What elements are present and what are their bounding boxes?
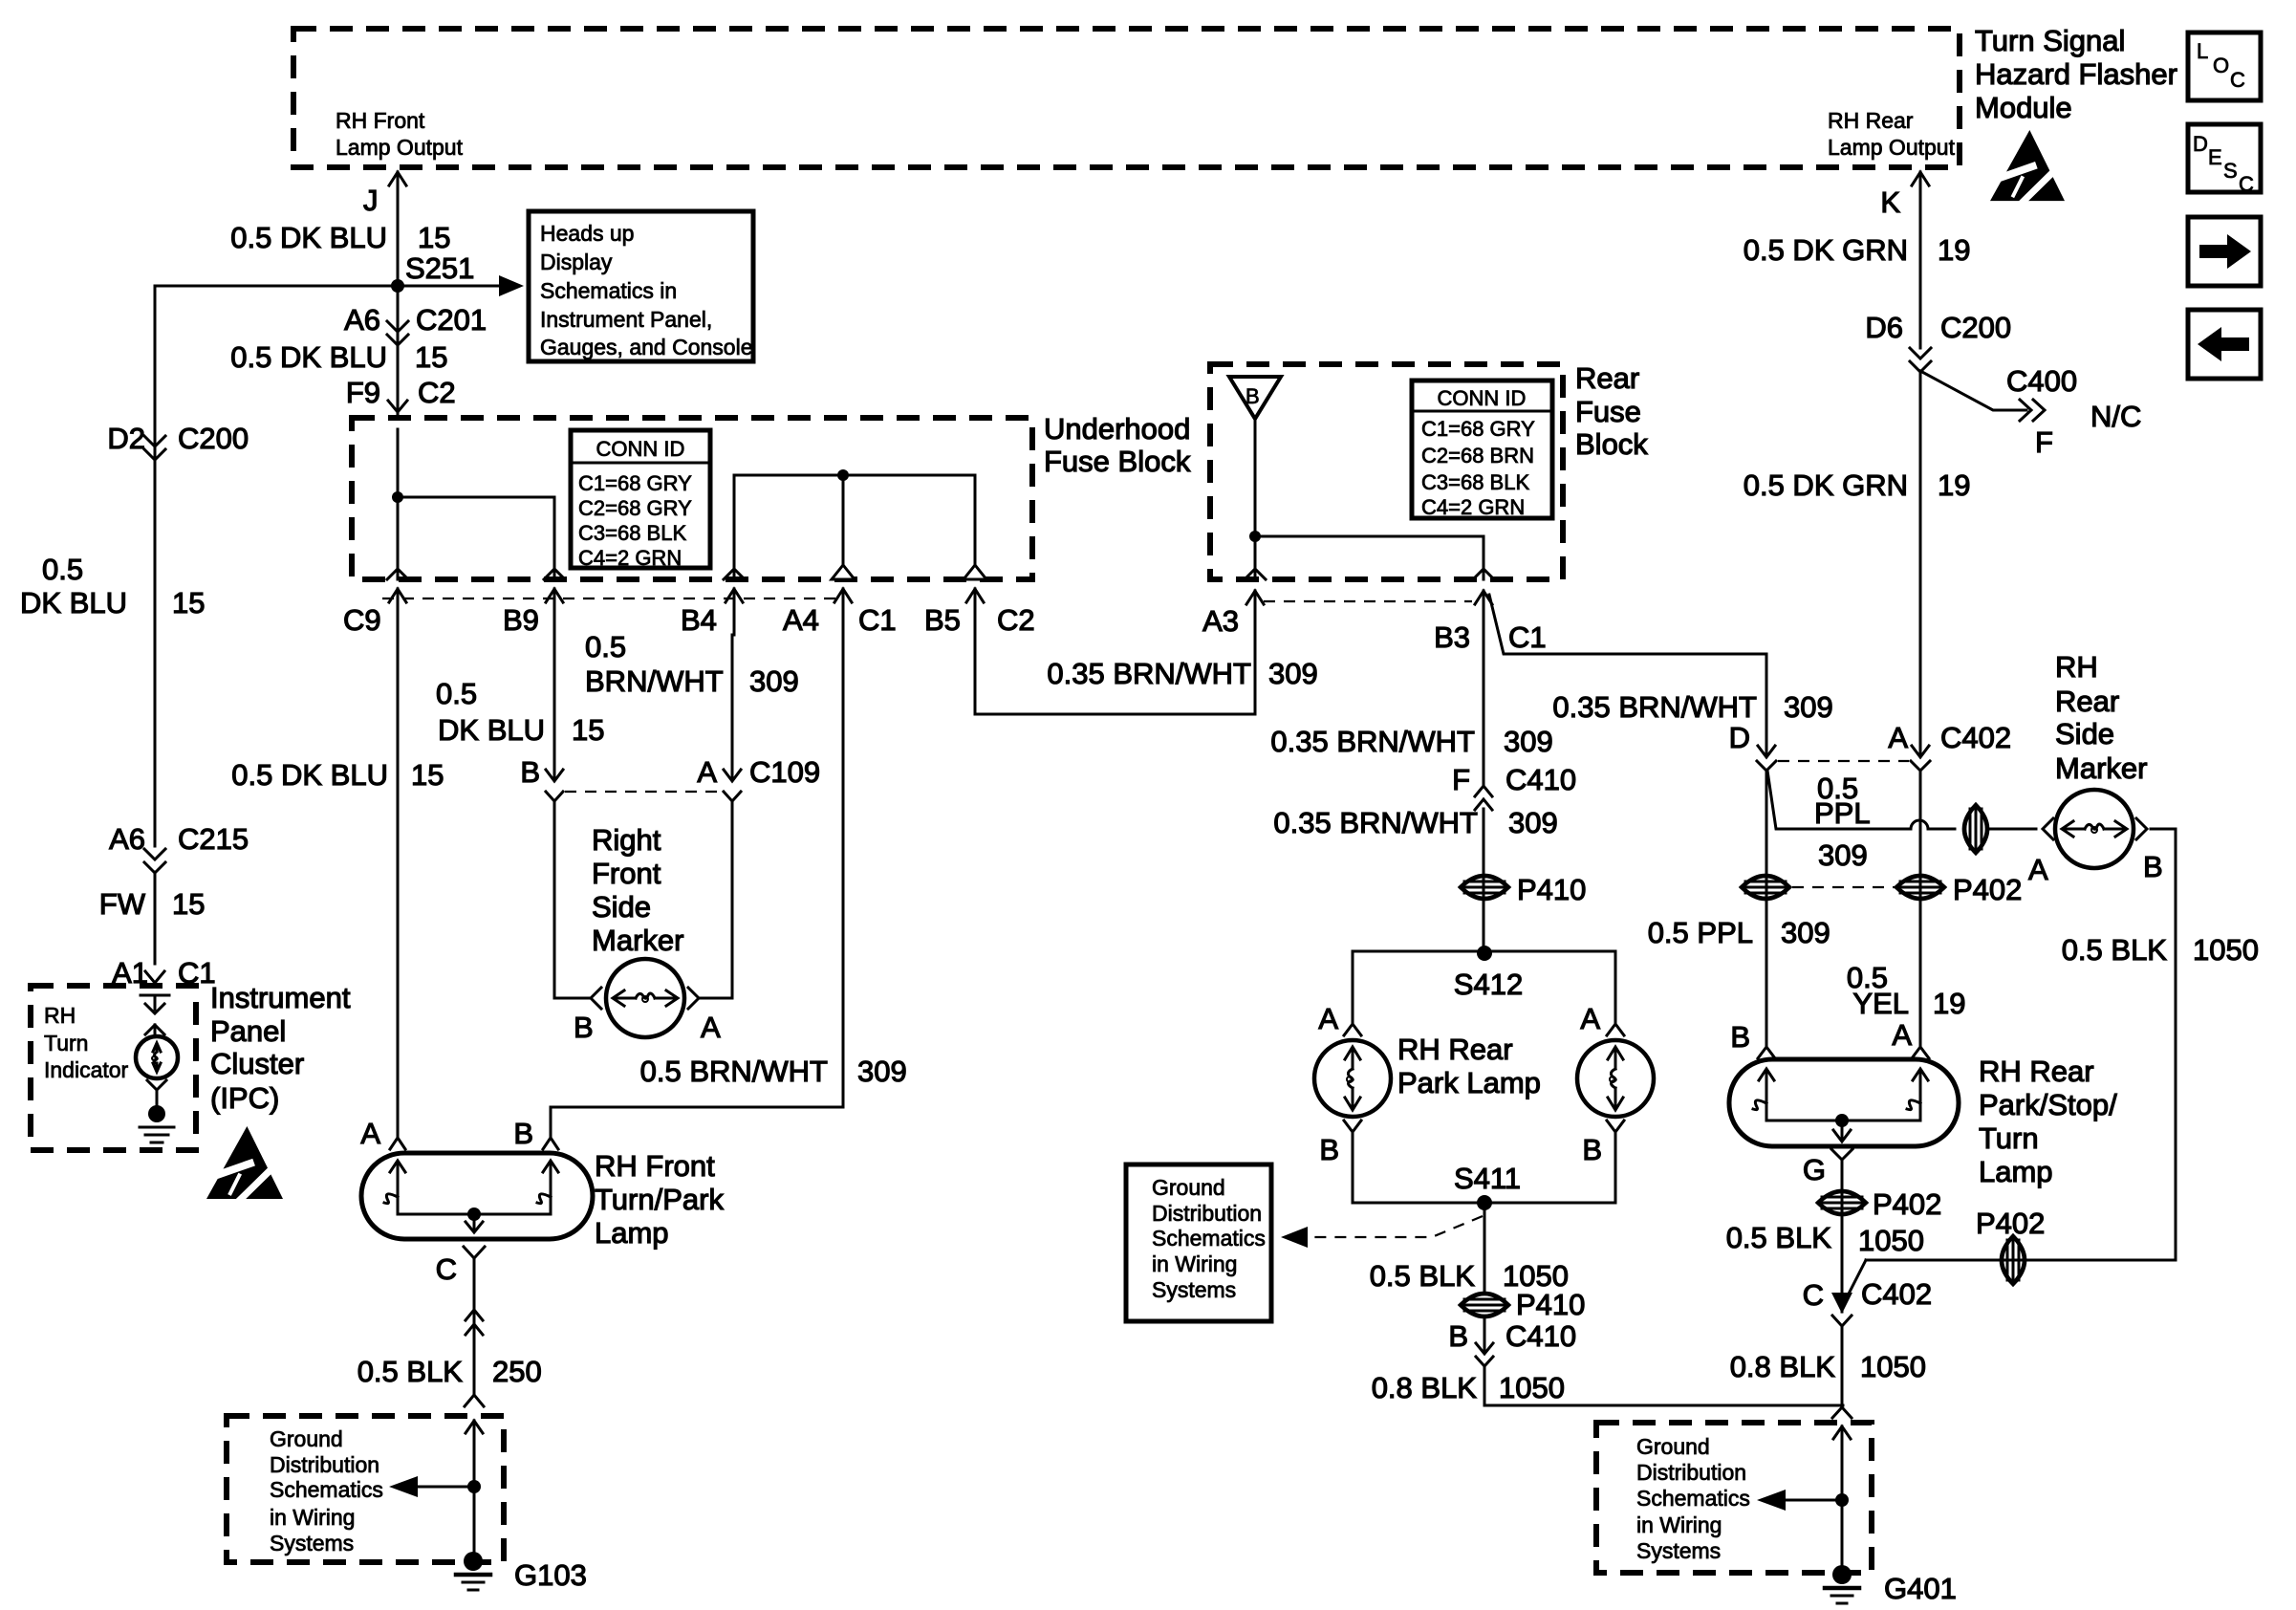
rear lamp pin A <box>1912 1047 1929 1058</box>
pin B3 / C1 <box>1473 569 1494 579</box>
svg-text:Distribution: Distribution <box>1636 1460 1746 1485</box>
connector C402 pin A <box>1912 746 1929 757</box>
svg-text:309: 309 <box>1818 838 1868 872</box>
RH rear park/stop/turn lamp <box>1729 1059 1959 1146</box>
connector C109 pin B <box>546 770 563 781</box>
svg-text:O: O <box>2213 54 2229 77</box>
legend box LOC <box>2188 33 2261 100</box>
fuse block internal splice <box>392 491 403 503</box>
legend box DESC <box>2188 124 2261 192</box>
front lamp pin C <box>464 1247 485 1258</box>
svg-text:Cluster: Cluster <box>210 1047 304 1080</box>
svg-text:YEL: YEL <box>1852 987 1909 1020</box>
svg-text:PPL: PPL <box>1814 796 1871 830</box>
svg-text:Block: Block <box>1575 427 1648 461</box>
svg-text:DK BLU: DK BLU <box>438 713 545 747</box>
rear fuse block internal wire <box>1254 419 1257 579</box>
rear lamp pin G <box>1831 1149 1852 1160</box>
rear fuse block feed triangle B <box>1229 377 1281 419</box>
junction of ground wires <box>1832 1407 1852 1418</box>
svg-text:L: L <box>2197 39 2208 63</box>
svg-text:C215: C215 <box>178 822 249 856</box>
connector C215 pin A6 <box>144 849 165 859</box>
svg-text:Side: Side <box>592 890 651 924</box>
fuse block internal bus B4-A4-C2 <box>734 474 975 477</box>
rh rear park lamp right bulb <box>1577 1040 1654 1117</box>
wire 0.5 BLK 1050 (G down) <box>1841 1161 1844 1298</box>
rh rear park lamp (left bulb) pin A <box>1344 1024 1361 1035</box>
grommet P402 (sideways on return) <box>2002 1236 2025 1284</box>
svg-text:Heads up: Heads up <box>540 221 634 246</box>
svg-text:BRN/WHT: BRN/WHT <box>585 664 724 698</box>
wire S251 down to C201 <box>397 286 400 418</box>
svg-text:C2: C2 <box>418 376 456 409</box>
svg-text:Front: Front <box>592 857 661 890</box>
connector C200 pin D2 <box>144 436 165 446</box>
pin B5 / C2 <box>964 565 986 579</box>
svg-text:Instrument Panel,: Instrument Panel, <box>540 307 712 332</box>
svg-text:S412: S412 <box>1454 968 1523 1001</box>
connector face dashed line (underhood) <box>382 598 841 599</box>
svg-text:250: 250 <box>492 1355 542 1388</box>
IPC pin socket <box>141 994 169 997</box>
wire FW 15 <box>154 872 157 964</box>
svg-text:A4: A4 <box>783 603 819 637</box>
wire S251 to heads-up reference (arrow) <box>398 285 499 288</box>
wire 0.8 BLK 1050 (to G401) <box>1484 1366 1486 1405</box>
svg-text:0.5: 0.5 <box>42 553 83 586</box>
connector C402 dashed face <box>1778 760 1909 762</box>
svg-text:G401: G401 <box>1884 1572 1957 1605</box>
svg-text:N/C: N/C <box>2090 400 2141 433</box>
svg-text:0.5 DK BLU: 0.5 DK BLU <box>230 340 387 374</box>
svg-text:0.5 BLK: 0.5 BLK <box>1726 1221 1832 1254</box>
svg-text:B3: B3 <box>1434 620 1470 654</box>
svg-text:D: D <box>1729 721 1750 754</box>
svg-text:C: C <box>2239 172 2254 196</box>
svg-text:Systems: Systems <box>270 1531 354 1556</box>
fuse block internal wire C9 <box>397 429 400 579</box>
svg-text:C1=68 GRY: C1=68 GRY <box>578 471 692 495</box>
svg-text:RH Front: RH Front <box>336 108 425 133</box>
svg-text:C410: C410 <box>1505 763 1576 796</box>
wire S251 left branch to D2 C200 <box>155 285 398 288</box>
svg-text:K: K <box>1880 185 1900 219</box>
svg-text:0.8 BLK: 0.8 BLK <box>1730 1350 1836 1383</box>
svg-text:309: 309 <box>749 664 799 698</box>
svg-text:C400: C400 <box>2006 364 2077 398</box>
svg-text:FW: FW <box>99 887 146 921</box>
svg-text:C1=68 GRY: C1=68 GRY <box>1421 417 1535 441</box>
svg-text:Fuse: Fuse <box>1575 395 1641 428</box>
svg-text:Marker: Marker <box>592 924 683 957</box>
legend box right-arrow <box>2188 217 2261 286</box>
svg-text:P402: P402 <box>1953 873 2022 906</box>
wire B9 side to side marker B <box>553 801 556 998</box>
svg-text:309: 309 <box>1504 725 1553 758</box>
svg-text:Turn/Park: Turn/Park <box>595 1183 724 1216</box>
right front side marker lamp <box>591 988 601 1009</box>
wire 0.5 BRN/WHT 309 (A4/C1 to front lamp B) <box>842 635 845 1107</box>
svg-text:P410: P410 <box>1517 873 1586 906</box>
RH turn indicator lamp <box>136 1036 178 1078</box>
connector C402 pin D <box>1758 746 1775 757</box>
wire 0.8 BLK 1050 (C402 to G401) <box>1841 1328 1844 1405</box>
wire into right ground box <box>1841 1426 1844 1500</box>
svg-text:in Wiring: in Wiring <box>1152 1251 1237 1276</box>
svg-text:F: F <box>2035 425 2053 459</box>
splice S411 <box>1353 1202 1615 1205</box>
pin A4 / C1 <box>832 565 855 579</box>
svg-text:15: 15 <box>418 221 450 254</box>
connector C410 pin F <box>1475 786 1492 796</box>
svg-text:Schematics: Schematics <box>270 1477 383 1502</box>
wire 0.35 BRN/WHT 309 (to P410) <box>1483 809 1485 949</box>
svg-text:RH Rear: RH Rear <box>1397 1033 1513 1066</box>
svg-text:D: D <box>2193 132 2208 156</box>
return joins C402 pin C <box>1844 1260 1866 1303</box>
rh rear park lamp left bulb <box>1314 1040 1391 1117</box>
grommet P402 (on yel wire) <box>1896 876 1944 899</box>
rh rear side marker lamp <box>2043 818 2053 839</box>
turn signal hazard flasher module U1 (dashed box) <box>293 29 1960 167</box>
connector C200 pin D6 <box>1910 348 1931 359</box>
svg-text:Side: Side <box>2055 717 2114 751</box>
wire 0.5 DK BLU 15 (C9 to front lamp A) <box>397 635 400 1138</box>
svg-text:RH Rear: RH Rear <box>1979 1055 2094 1088</box>
svg-text:15: 15 <box>172 586 205 620</box>
svg-text:C1: C1 <box>858 603 897 637</box>
svg-text:P402: P402 <box>1873 1187 1941 1221</box>
svg-text:C3=68 BLK: C3=68 BLK <box>578 521 686 545</box>
svg-text:B: B <box>520 755 540 789</box>
svg-text:Systems: Systems <box>1152 1277 1236 1302</box>
svg-text:Underhood: Underhood <box>1044 412 1190 446</box>
svg-text:Display: Display <box>540 250 613 274</box>
svg-text:B: B <box>1448 1319 1468 1353</box>
wire 0.5 DK BLU 15 to IPC <box>154 286 157 846</box>
fuse block internal wire to B9 <box>398 496 554 499</box>
wire 0.35 BRN/WHT 309 (B3 down) <box>1483 635 1485 784</box>
svg-text:P402: P402 <box>1976 1207 2045 1240</box>
svg-text:B: B <box>1582 1133 1602 1166</box>
connector C410 pin B <box>1484 1316 1486 1353</box>
svg-text:19: 19 <box>1938 468 1970 502</box>
svg-text:Hazard Flasher: Hazard Flasher <box>1975 57 2177 91</box>
svg-text:0.5 BLK: 0.5 BLK <box>1370 1259 1476 1293</box>
svg-text:C3=68 BLK: C3=68 BLK <box>1421 470 1529 494</box>
svg-text:Indicator: Indicator <box>44 1057 129 1082</box>
ground G401 <box>1832 1565 1852 1584</box>
svg-text:A3: A3 <box>1202 604 1239 638</box>
svg-text:A: A <box>1892 1018 1912 1052</box>
svg-text:0.35 BRN/WHT: 0.35 BRN/WHT <box>1047 657 1251 690</box>
svg-text:0.5: 0.5 <box>436 677 477 710</box>
ground distribution reference box (middle, solid) <box>1126 1164 1271 1321</box>
front lamp pin B <box>543 1138 558 1149</box>
svg-text:C410: C410 <box>1505 1319 1576 1353</box>
svg-text:Systems: Systems <box>1636 1538 1721 1563</box>
right bulb pin B <box>1607 1120 1624 1132</box>
svg-text:C201: C201 <box>416 303 487 337</box>
svg-text:P410: P410 <box>1516 1288 1585 1321</box>
svg-text:C: C <box>2230 68 2245 92</box>
pin B9 <box>544 569 565 579</box>
connector C109 pin A <box>724 770 741 781</box>
wire 0.5 PPL 309 (D down to lamp B) <box>1765 771 1768 1045</box>
wire 0.5 YEL 19 (A to rear lamp) <box>1919 771 1922 1045</box>
svg-text:1050: 1050 <box>1860 1350 1926 1383</box>
ground (IPC internal) <box>148 1105 165 1122</box>
svg-text:B4: B4 <box>681 603 717 637</box>
svg-text:RH: RH <box>44 1003 76 1028</box>
connector C402 pin C <box>1841 1298 1844 1312</box>
svg-text:309: 309 <box>857 1055 907 1088</box>
wire 0.35 BRN/WHT 309 (C1 to D) <box>1489 595 1766 654</box>
svg-text:15: 15 <box>415 340 447 374</box>
wire into ground box <box>473 1421 476 1487</box>
svg-text:Ground: Ground <box>270 1426 343 1451</box>
svg-text:C9: C9 <box>343 603 381 637</box>
wire 0.5 BRN/WHT 309 (B4 to C109) <box>731 635 734 780</box>
svg-text:Lamp Output: Lamp Output <box>1828 135 1956 160</box>
svg-text:Fuse Block: Fuse Block <box>1044 445 1191 478</box>
svg-text:B: B <box>1730 1020 1750 1054</box>
wire 0.5 DK GRN 19 (down to C402) <box>1919 371 1922 755</box>
connector face dashed (rear fuse block) <box>1264 600 1472 602</box>
svg-text:C1: C1 <box>1508 620 1547 654</box>
wire K output 0.5 DK GRN 19 <box>1919 172 1922 348</box>
left bulb pin B <box>1344 1120 1361 1132</box>
splice S251 <box>391 279 404 293</box>
svg-text:A: A <box>1580 1002 1600 1035</box>
svg-text:C4=2 GRN: C4=2 GRN <box>1421 495 1525 519</box>
svg-text:309: 309 <box>1781 916 1830 949</box>
svg-text:C109: C109 <box>749 755 820 789</box>
svg-text:F: F <box>1452 763 1470 796</box>
svg-text:D2: D2 <box>107 422 145 455</box>
svg-text:DK BLU: DK BLU <box>20 586 127 620</box>
svg-text:S411: S411 <box>1454 1162 1521 1195</box>
svg-text:G103: G103 <box>514 1558 587 1592</box>
IPC lamp lower pin <box>147 1080 166 1090</box>
wire 0.35 BRN/WHT 309 (C2 to rear fuse block A3) <box>974 635 977 714</box>
wire S412 bus <box>1353 950 1615 953</box>
wire side marker A to B4 <box>701 997 732 1000</box>
wire J output 0.5 DK BLU 15 (pin J) <box>397 172 400 286</box>
svg-text:Distribution: Distribution <box>1152 1201 1262 1226</box>
svg-text:Schematics: Schematics <box>1636 1486 1750 1511</box>
svg-text:Ground: Ground <box>1636 1434 1710 1459</box>
svg-text:Gauges, and Console: Gauges, and Console <box>540 335 753 359</box>
svg-text:15: 15 <box>411 758 444 792</box>
pin B4 <box>724 569 745 579</box>
svg-text:E: E <box>2208 145 2222 169</box>
svg-text:Park/Stop/: Park/Stop/ <box>1979 1088 2117 1121</box>
svg-text:F9: F9 <box>346 376 380 409</box>
CONN ID table (underhood) <box>571 430 710 568</box>
splice S412 <box>1477 946 1492 961</box>
svg-text:309: 309 <box>1784 690 1833 724</box>
CONN ID table (rear) <box>1412 381 1552 518</box>
svg-text:0.5 DK GRN: 0.5 DK GRN <box>1744 233 1908 267</box>
svg-text:A: A <box>1318 1002 1338 1035</box>
arrow to schematics text <box>418 1486 474 1489</box>
side marker return 0.5 BLK 1050 <box>2151 828 2176 831</box>
connector C109 dashed face <box>565 791 726 793</box>
pin C9 <box>387 569 408 579</box>
svg-text:C: C <box>1803 1278 1824 1312</box>
svg-text:C4=2 GRN: C4=2 GRN <box>578 546 682 570</box>
svg-text:Park Lamp: Park Lamp <box>1397 1066 1541 1099</box>
svg-text:Lamp: Lamp <box>1979 1155 2053 1188</box>
svg-text:Panel: Panel <box>210 1014 286 1048</box>
svg-text:C402: C402 <box>1940 721 2011 754</box>
ESD sensitivity symbol (IPC) <box>206 1126 283 1203</box>
svg-text:0.5 BRN/WHT: 0.5 BRN/WHT <box>640 1055 828 1088</box>
underhood fuse block (dashed box) <box>352 418 1032 579</box>
grommet P410 <box>1461 876 1508 899</box>
svg-text:D6: D6 <box>1865 311 1903 344</box>
svg-text:Rear: Rear <box>2055 685 2119 718</box>
svg-text:Turn: Turn <box>1979 1121 2039 1155</box>
connector C1 pin A1 (arrow into IPC) <box>145 971 164 983</box>
svg-text:309: 309 <box>1268 657 1318 690</box>
svg-text:A: A <box>697 755 717 789</box>
ground G103 <box>464 1552 483 1571</box>
svg-text:0.35 BRN/WHT: 0.35 BRN/WHT <box>1552 690 1757 724</box>
svg-text:CONN ID: CONN ID <box>1438 386 1527 410</box>
svg-text:B: B <box>2143 850 2163 883</box>
wire 0.5 BLK 1050 (S411 down) <box>1484 1203 1486 1294</box>
svg-text:19: 19 <box>1938 233 1970 267</box>
arrow to schematics text (right) <box>1786 1499 1842 1502</box>
connector C2 pin F9 (arrow into fuse block) <box>388 401 407 412</box>
svg-text:C2: C2 <box>997 603 1035 637</box>
ESD sensitivity symbol (module) <box>1990 130 2065 205</box>
reference box Heads up Display Schematics <box>529 211 753 361</box>
svg-text:in Wiring: in Wiring <box>1636 1512 1722 1537</box>
svg-text:1050: 1050 <box>2193 933 2259 967</box>
svg-text:G: G <box>1803 1153 1826 1186</box>
svg-text:Turn: Turn <box>44 1031 88 1055</box>
svg-text:Lamp: Lamp <box>595 1216 669 1250</box>
svg-text:C402: C402 <box>1861 1277 1932 1311</box>
svg-text:B9: B9 <box>503 603 539 637</box>
svg-text:1050: 1050 <box>1858 1224 1924 1257</box>
instrument panel cluster IPC (dashed box) <box>31 986 196 1150</box>
svg-text:15: 15 <box>572 713 604 747</box>
pin A3 <box>1245 569 1266 579</box>
wire 0.5 DK BLU 15 (B9 to C109) <box>553 635 556 780</box>
svg-text:Marker: Marker <box>2055 751 2147 785</box>
svg-text:in Wiring: in Wiring <box>270 1505 355 1530</box>
svg-text:B: B <box>1245 384 1260 408</box>
svg-text:(IPC): (IPC) <box>210 1081 279 1115</box>
svg-text:0.35 BRN/WHT: 0.35 BRN/WHT <box>1273 806 1478 839</box>
svg-text:0.5 BLK: 0.5 BLK <box>2062 933 2168 967</box>
rear lamp pin B <box>1758 1047 1775 1058</box>
rh rear park lamp (right bulb) pin A <box>1607 1024 1624 1035</box>
svg-text:A6: A6 <box>344 303 380 337</box>
svg-text:0.5 BLK: 0.5 BLK <box>357 1355 464 1388</box>
svg-text:RH Front: RH Front <box>595 1149 715 1183</box>
svg-text:0.5 DK GRN: 0.5 DK GRN <box>1744 468 1908 502</box>
svg-text:Ground: Ground <box>1152 1175 1225 1200</box>
svg-text:0.35 BRN/WHT: 0.35 BRN/WHT <box>1270 725 1475 758</box>
svg-text:B: B <box>513 1117 533 1150</box>
svg-text:C200: C200 <box>1940 311 2011 344</box>
svg-text:0.5 DK BLU: 0.5 DK BLU <box>231 758 388 792</box>
svg-text:Turn Signal: Turn Signal <box>1975 24 2125 57</box>
RH front turn/park lamp <box>361 1153 593 1239</box>
svg-text:A: A <box>360 1117 380 1150</box>
svg-text:1050: 1050 <box>1499 1371 1565 1404</box>
svg-text:C2=68 BRN: C2=68 BRN <box>1421 444 1534 468</box>
svg-text:B: B <box>1319 1133 1339 1166</box>
wire 0.5 PPL 309 (D to side marker) <box>1767 771 1911 829</box>
reference C400 N/C spur <box>1920 371 2026 410</box>
svg-text:B5: B5 <box>924 603 961 637</box>
legend box left-arrow <box>2188 310 2261 379</box>
svg-text:Lamp Output: Lamp Output <box>336 135 464 160</box>
wire 0.5 BLK 250 <box>473 1258 476 1395</box>
svg-text:Module: Module <box>1975 91 2072 124</box>
svg-text:15: 15 <box>172 887 205 921</box>
svg-text:A: A <box>701 1011 721 1044</box>
connector C201 pin A6 <box>387 321 408 332</box>
ground distribution reference box (right, dashed) <box>1596 1423 1872 1573</box>
svg-text:CONN ID: CONN ID <box>596 437 685 461</box>
svg-text:A6: A6 <box>109 822 145 856</box>
svg-text:A: A <box>2028 853 2048 886</box>
svg-text:RH Rear: RH Rear <box>1828 108 1914 133</box>
rear fuse block (dashed box) <box>1210 364 1563 579</box>
svg-text:Right: Right <box>592 823 661 857</box>
ground distribution reference box (left, dashed) <box>227 1416 504 1562</box>
grommet P402 (on ppl wire) + dashed tie <box>1742 876 1789 899</box>
svg-text:0.8 BLK: 0.8 BLK <box>1372 1371 1478 1404</box>
svg-text:19: 19 <box>1933 987 1965 1020</box>
svg-text:Schematics: Schematics <box>1152 1226 1266 1251</box>
grommet P402 (on ground wire) <box>1818 1191 1866 1214</box>
svg-text:C200: C200 <box>178 422 249 455</box>
svg-text:A: A <box>1888 721 1908 754</box>
svg-text:S: S <box>2223 159 2238 183</box>
svg-text:C: C <box>436 1252 457 1286</box>
svg-text:Instrument: Instrument <box>210 981 351 1014</box>
svg-text:0.5 PPL: 0.5 PPL <box>1648 916 1753 949</box>
svg-text:Distribution: Distribution <box>270 1452 379 1477</box>
svg-text:0.5 DK BLU: 0.5 DK BLU <box>230 221 387 254</box>
svg-text:S251: S251 <box>405 251 474 285</box>
grommet P410 (lower) <box>1461 1294 1508 1316</box>
svg-text:C2=68 GRY: C2=68 GRY <box>578 496 692 520</box>
svg-text:0.5: 0.5 <box>585 630 626 664</box>
svg-text:J: J <box>363 184 379 217</box>
svg-text:Rear: Rear <box>1575 361 1639 395</box>
svg-text:B: B <box>574 1011 594 1044</box>
front lamp pin A <box>390 1138 405 1149</box>
dashed reference arrow to ground distribution schematics <box>1306 1216 1483 1237</box>
svg-text:309: 309 <box>1508 806 1558 839</box>
svg-text:Schematics in: Schematics in <box>540 278 677 303</box>
svg-text:RH: RH <box>2055 650 2098 684</box>
grommet P402 (sidemarker feed) <box>1964 805 1987 853</box>
